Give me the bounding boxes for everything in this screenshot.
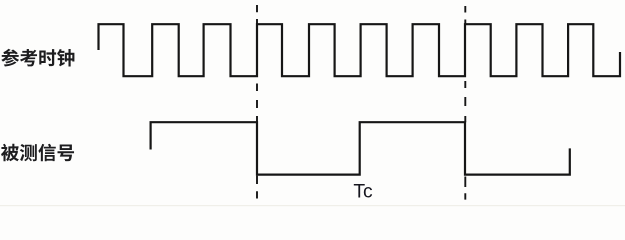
measured signal waveform xyxy=(151,122,570,174)
label 被测信号 (signal under test) xyxy=(1,144,74,162)
reference clock waveform xyxy=(99,24,621,76)
dashed marker line left (gate start) xyxy=(256,5,258,199)
dashed marker line right (gate end) xyxy=(464,6,466,200)
faint bottom edge artifact line xyxy=(0,205,625,206)
label 参考时钟 (reference clock) xyxy=(1,49,74,67)
svg-text:Tc: Tc xyxy=(353,181,373,202)
